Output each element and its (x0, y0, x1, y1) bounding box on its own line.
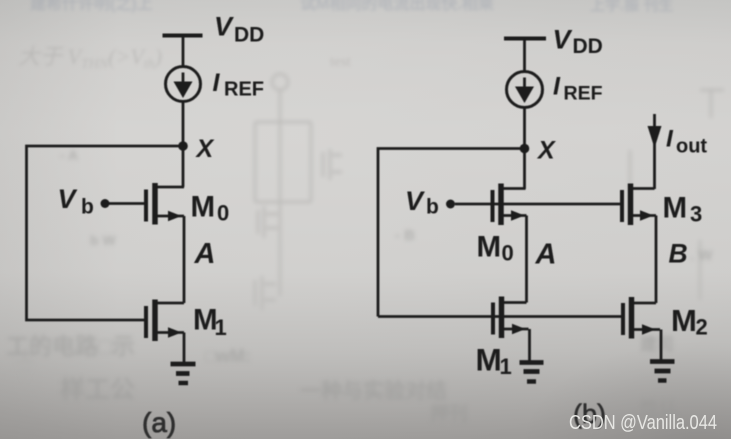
svg-text:b: b (426, 196, 439, 219)
node Vb terminal dot (a) (101, 199, 110, 208)
transistor M2 (b) (623, 297, 660, 339)
svg-text:. W: . W (690, 247, 713, 264)
svg-text:□wM:: □wM: (205, 346, 251, 366)
wire X to M0 drain (a) (182, 146, 185, 187)
wire Iout into M3 drain (b) (653, 114, 656, 189)
transistor M1 (a) (146, 300, 184, 342)
wire M2 source to ground (b) (660, 330, 663, 362)
svg-text:- A: - A (60, 147, 78, 163)
svg-text:test: test (330, 54, 352, 70)
svg-text:建希什许明(之)上: 建希什许明(之)上 (30, 0, 153, 13)
svg-text:2: 2 (696, 315, 708, 340)
transistor M0 (a) (146, 183, 184, 225)
svg-text:b W: b W (90, 232, 116, 248)
svg-text:3: 3 (690, 202, 702, 227)
svg-text:B: B (669, 239, 688, 269)
ground under M1 (b) (520, 363, 544, 382)
faint bleed-through ghosts (decorative) (30, 0, 673, 14)
node X junction dot (b) (520, 144, 530, 154)
wire Vb gate rail M0-M3 (b) (455, 203, 622, 206)
ground (a) (171, 364, 196, 383)
node X junction dot (a) (178, 141, 188, 151)
svg-text:V: V (405, 186, 425, 216)
svg-text:CSDN @Vanilla.044: CSDN @Vanilla.044 (569, 412, 717, 434)
wire VDD to IREF (a) (182, 37, 185, 67)
transistor M3 (b) (622, 184, 656, 226)
current source IREF (b) (507, 72, 543, 108)
svg-text:REF: REF (564, 83, 603, 105)
svg-text:M: M (663, 192, 688, 225)
wire gate rail M1-M2 (b) (378, 315, 622, 318)
svg-text:DD: DD (573, 35, 603, 58)
svg-text:试M相同的电流出现快.相乘: 试M相同的电流出现快.相乘 (300, 0, 494, 13)
svg-text:押刊: 押刊 (430, 402, 468, 425)
wire IREF to node X (b) (523, 106, 526, 149)
svg-text:0: 0 (502, 241, 514, 266)
labels circuit (b) (405, 25, 708, 430)
svg-text:out: out (676, 136, 707, 158)
wire M1 source to ground (a) (183, 333, 186, 364)
wire M1 source to ground (b) (528, 329, 531, 362)
node Vb terminal dot (b) (446, 200, 455, 209)
svg-text:REF: REF (224, 79, 264, 101)
svg-text:V: V (214, 12, 234, 42)
power rail VDD (a) (163, 34, 203, 38)
wire IREF to node X (a) (182, 101, 185, 146)
svg-text:V: V (58, 184, 78, 214)
wire node A, M0 source to M1 drain (a) (183, 216, 186, 303)
svg-text:X: X (195, 135, 215, 163)
wire feedback loop X to M1 gate (a) (27, 146, 184, 320)
svg-text:- B: - B (395, 227, 415, 244)
svg-text:A: A (194, 238, 216, 270)
svg-text:I: I (213, 69, 221, 97)
current source IREF (a) (166, 67, 201, 102)
svg-text:DD: DD (234, 24, 264, 47)
svg-text:I: I (666, 126, 674, 153)
wire node A, M0 source to M1 drain (b) (525, 216, 528, 303)
labels circuit (a) (58, 12, 265, 439)
svg-text:建司: 建司 (640, 334, 674, 354)
svg-text:A: A (535, 239, 557, 271)
transistor M1 (b) (493, 297, 529, 339)
svg-text:(a): (a) (142, 407, 176, 438)
power rail VDD (b) (504, 37, 546, 41)
wire X to M0 drain (b) (523, 149, 526, 190)
svg-text:一种与实验对结: 一种与实验对结 (300, 379, 447, 403)
svg-text:样工公: 样工公 (60, 375, 135, 404)
current arrow Iout (b) (648, 126, 662, 148)
svg-text:上宇.振 刊生: 上宇.振 刊生 (590, 0, 673, 14)
svg-text:b: b (81, 196, 94, 219)
svg-text:V: V (553, 25, 573, 55)
svg-text:1: 1 (500, 354, 512, 379)
svg-text:M: M (671, 303, 697, 338)
ground under M2 (b) (650, 362, 675, 381)
svg-text:1: 1 (215, 315, 227, 340)
wire VDD to IREF (b) (523, 40, 526, 72)
svg-text:0: 0 (217, 201, 229, 226)
wire Vb to M0 gate (a) (105, 202, 145, 205)
wire node B, M3 source to M2 drain (b) (655, 216, 658, 304)
svg-text:M: M (477, 231, 502, 264)
svg-text:X: X (536, 137, 556, 165)
svg-text:I: I (553, 73, 561, 101)
svg-text:M: M (191, 191, 216, 224)
ghost ground (decorative) (16, 348, 34, 378)
svg-text:M: M (476, 342, 502, 378)
wire feedback loop X to bottom gate rail (b) (378, 149, 525, 317)
transistor M0 (b) (493, 184, 527, 226)
